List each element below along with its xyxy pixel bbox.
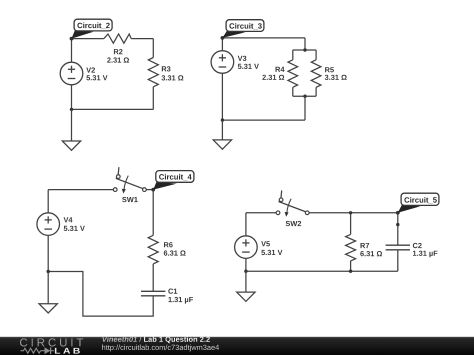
wire V5 bottom lead — [245, 258, 247, 271]
wire corner to C2 — [397, 213, 399, 245]
wire SW1 to node — [146, 189, 153, 191]
junction R7 bottom — [349, 270, 352, 273]
wire V4 top lead — [47, 190, 49, 213]
label C2 value — [413, 243, 438, 257]
resistor R7 — [346, 234, 356, 261]
wire bottom bridge — [293, 95, 316, 97]
footer bar — [0, 337, 474, 355]
node Circuit_2 anchor — [70, 37, 74, 41]
wire V2 bottom lead — [71, 85, 73, 110]
label SW1 — [122, 197, 138, 202]
wire to ground — [245, 271, 247, 292]
ground — [62, 141, 80, 150]
junction top bridge — [303, 48, 306, 51]
node Circuit_4 anchor — [151, 188, 155, 192]
wire R2 to corner — [131, 38, 153, 40]
label SW2 — [286, 221, 302, 226]
resistor R3 — [148, 58, 158, 87]
switch SW2 — [276, 190, 309, 216]
wire to parallel pair — [304, 38, 306, 50]
resistor R4 — [288, 60, 298, 88]
wire V2 top lead — [71, 39, 73, 63]
wire R5 bottom lead — [315, 87, 317, 96]
wire right branch lower — [152, 87, 154, 110]
footer title — [102, 336, 209, 343]
wire R6 to C1 — [152, 264, 154, 291]
wire top net — [222, 37, 305, 39]
wire to ground — [71, 109, 73, 141]
net label Circuit_2 — [72, 19, 113, 38]
wire V3 top lead — [221, 38, 223, 51]
capacitor C1 — [141, 291, 165, 296]
label R5 value — [325, 67, 347, 80]
wire V5 top lead — [245, 213, 247, 236]
wire R7 bottom lead — [350, 261, 352, 271]
voltage source V3 — [211, 51, 234, 74]
label V4 value — [64, 217, 85, 231]
wire R4 top lead — [292, 50, 294, 60]
resistor R6 — [148, 235, 158, 264]
wire to ground — [221, 120, 223, 140]
wire node to R6 — [152, 190, 154, 236]
ground — [39, 304, 57, 313]
label V2 value — [86, 67, 107, 80]
junction bottom node — [70, 108, 73, 111]
net label Circuit_3 — [222, 20, 264, 38]
wire V3 bottom lead — [221, 73, 223, 120]
junction R7 top — [349, 211, 352, 214]
switch SW1 — [113, 167, 146, 193]
wire right branch upper — [152, 39, 154, 58]
wire bottom return — [222, 119, 305, 121]
resistor R5 — [311, 60, 321, 88]
wire SW2 to corner — [309, 212, 398, 214]
label V3 value — [238, 56, 259, 69]
wire bottom return — [72, 108, 154, 110]
resistor R2 — [104, 34, 131, 43]
wire R7 top lead — [350, 213, 352, 235]
voltage source V2 — [60, 62, 83, 85]
wire V4 to SW1 — [48, 189, 113, 191]
wire to ground — [47, 272, 49, 304]
capacitor C2 — [386, 245, 410, 250]
voltage source V5 — [235, 236, 258, 259]
junction bottom bridge — [303, 95, 306, 98]
wire R4 bottom lead — [292, 87, 294, 96]
net label Circuit_4 — [153, 171, 194, 190]
label C1 value — [168, 289, 193, 304]
label R6 value — [164, 242, 186, 256]
net label Circuit_5 — [398, 193, 439, 213]
footer url — [102, 345, 219, 352]
ground — [237, 292, 255, 301]
junction bottom node — [221, 118, 224, 121]
ground — [213, 140, 231, 149]
wire R5 top lead — [315, 50, 317, 60]
label R7 value — [360, 243, 382, 256]
label R2 value — [107, 49, 129, 63]
label V5 value — [261, 241, 282, 255]
wire top bridge — [293, 49, 316, 51]
wire pair to bottom rail — [304, 96, 306, 120]
label R4 value — [262, 67, 284, 80]
junction C2 feed — [396, 223, 399, 226]
label R3 value — [162, 66, 184, 80]
wire top-left net A — [72, 38, 104, 40]
junction bottom node — [47, 270, 50, 273]
wire V4 bottom lead — [47, 235, 49, 271]
wire V5 to SW2 — [246, 212, 276, 214]
wire C2 bottom lead — [397, 250, 399, 271]
node Circuit_5 anchor — [396, 211, 400, 215]
wire bottom rail — [246, 270, 398, 272]
junction bottom node — [244, 270, 247, 273]
wire C1 return path — [48, 272, 153, 317]
node Circuit_3 anchor — [221, 36, 225, 40]
CircuitLab logo — [20, 338, 83, 354]
voltage source V4 — [37, 213, 60, 236]
